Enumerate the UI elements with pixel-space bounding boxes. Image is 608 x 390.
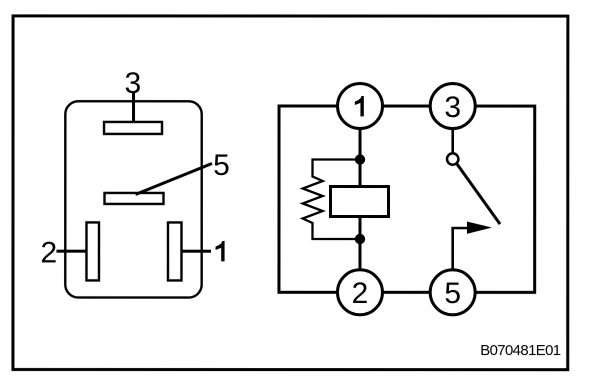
pin slot 5 bbox=[104, 193, 163, 204]
relay connector body (pin view) bbox=[65, 101, 201, 297]
svg-text:3: 3 bbox=[444, 91, 461, 124]
pin slot 3 bbox=[104, 122, 162, 134]
pin label 1 bbox=[216, 241, 225, 261]
resistor (parallel with coil) bbox=[303, 159, 360, 239]
terminal 1 bbox=[338, 84, 383, 129]
svg-text:2: 2 bbox=[352, 277, 369, 310]
terminal 2 bbox=[337, 270, 382, 315]
wire: moving contact lead from terminal 5 bbox=[453, 228, 468, 292]
terminal 3 bbox=[430, 84, 475, 129]
pin slot 2 bbox=[86, 222, 99, 280]
wire: tick from label 2 to pin slot 2 bbox=[56, 250, 86, 253]
node A (junction dot, terminal 1 side) bbox=[355, 154, 365, 164]
switch blade bbox=[457, 164, 500, 224]
relay coil bbox=[330, 187, 388, 217]
terminal 5 bbox=[430, 270, 475, 315]
wire: fixed contact lead from terminal 3 bbox=[451, 106, 454, 155]
wire: tick from pin slot 1 to label 1 bbox=[181, 250, 210, 253]
wire: coil branch from terminal 1 to terminal 2 bbox=[358, 106, 361, 292]
svg-text:2: 2 bbox=[40, 236, 57, 269]
circuit outline box bbox=[279, 106, 535, 292]
node B (junction dot, terminal 2 side) bbox=[355, 234, 365, 244]
moving contact arrow bbox=[467, 222, 492, 234]
wire: leader from label 5 to pin slot 5 bbox=[136, 163, 213, 194]
svg-text:B070481E01: B070481E01 bbox=[480, 342, 561, 359]
svg-text:5: 5 bbox=[444, 277, 461, 310]
fixed contact pivot (open circle) bbox=[447, 153, 458, 164]
svg-text:3: 3 bbox=[124, 67, 141, 100]
wire: lead from label 3 to pin slot 3 bbox=[132, 93, 135, 122]
svg-text:5: 5 bbox=[213, 149, 230, 182]
pin slot 1 bbox=[168, 222, 182, 280]
